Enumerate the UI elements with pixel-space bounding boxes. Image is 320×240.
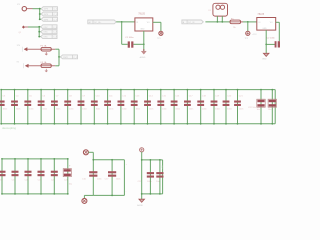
- svg-text:+5V: +5V: [162, 165, 164, 169]
- svg-text:DC_IN: DC_IN: [188, 22, 195, 24]
- svg-text:decoupling: decoupling: [2, 126, 16, 130]
- svg-text:C_X: C_X: [53, 37, 58, 39]
- svg-text:C22 10u: C22 10u: [248, 107, 257, 109]
- svg-text:VO: VO: [270, 22, 273, 24]
- svg-text:GPS: GPS: [44, 19, 49, 21]
- svg-text:C1 100n: C1 100n: [125, 37, 134, 39]
- svg-text:OSC: OSC: [43, 27, 48, 29]
- svg-text:PWR: PWR: [63, 57, 68, 59]
- svg-text:C_X: C_X: [54, 9, 59, 11]
- svg-text:GND: GND: [262, 59, 267, 61]
- svg-text:VO: VO: [147, 22, 150, 24]
- svg-text:GPS: GPS: [44, 9, 49, 11]
- svg-text:OSC: OSC: [43, 37, 48, 39]
- svg-text:C2 100n: C2 100n: [267, 38, 276, 40]
- svg-text:78L05: 78L05: [257, 13, 264, 16]
- svg-text:GND: GND: [140, 29, 145, 31]
- svg-text:AGND: AGND: [137, 204, 143, 207]
- svg-text:AGND: AGND: [140, 56, 146, 59]
- svg-text:C_X: C_X: [54, 14, 59, 16]
- svg-text:C_X: C_X: [53, 27, 58, 29]
- svg-text:C_X: C_X: [53, 32, 58, 34]
- svg-text:GND: GND: [262, 28, 267, 30]
- svg-text:+12V: +12V: [252, 34, 257, 36]
- svg-text:GPS: GPS: [44, 14, 49, 16]
- svg-text:TP2: TP2: [245, 38, 248, 40]
- svg-text:78L05: 78L05: [138, 13, 145, 16]
- svg-text:DC_IN+: DC_IN+: [94, 22, 102, 24]
- svg-text:C_X: C_X: [73, 57, 78, 59]
- svg-text:C_X: C_X: [54, 19, 59, 21]
- svg-text:OSC: OSC: [43, 32, 48, 34]
